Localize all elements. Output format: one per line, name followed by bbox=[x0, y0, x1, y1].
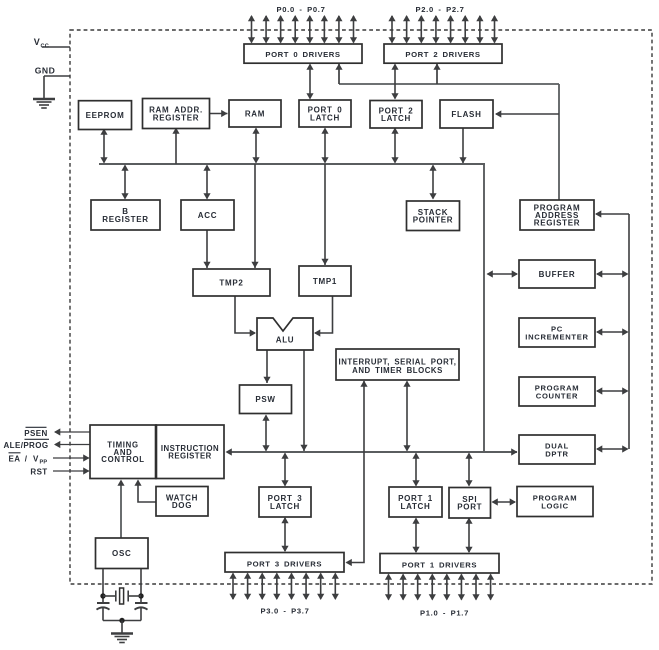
svg-text:LATCH: LATCH bbox=[381, 114, 411, 123]
svg-text:P2.0 - P2.7: P2.0 - P2.7 bbox=[415, 5, 464, 14]
svg-text:PORT 2 DRIVERS: PORT 2 DRIVERS bbox=[405, 50, 480, 59]
svg-text:CC: CC bbox=[41, 44, 49, 50]
svg-text:V: V bbox=[34, 37, 40, 47]
svg-text:LATCH: LATCH bbox=[400, 502, 430, 511]
svg-text:TMP2: TMP2 bbox=[219, 279, 243, 288]
svg-text:BUFFER: BUFFER bbox=[539, 270, 576, 279]
svg-text:P3.0 - P3.7: P3.0 - P3.7 bbox=[260, 607, 309, 616]
svg-text:AND TIMER BLOCKS: AND TIMER BLOCKS bbox=[352, 366, 443, 375]
svg-text:PORT 0 DRIVERS: PORT 0 DRIVERS bbox=[265, 50, 340, 59]
svg-text:PORT: PORT bbox=[457, 503, 482, 512]
svg-text:PP: PP bbox=[40, 460, 48, 466]
svg-text:FLASH: FLASH bbox=[451, 110, 481, 119]
svg-text:TMP1: TMP1 bbox=[313, 277, 337, 286]
svg-text:OSC: OSC bbox=[112, 549, 131, 558]
svg-text:REGISTER: REGISTER bbox=[153, 113, 200, 122]
svg-text:COUNTER: COUNTER bbox=[536, 391, 578, 400]
svg-text:DOG: DOG bbox=[172, 501, 192, 510]
svg-text:P0.0 - P0.7: P0.0 - P0.7 bbox=[276, 5, 325, 14]
svg-text:V: V bbox=[33, 455, 39, 464]
svg-text:EEPROM: EEPROM bbox=[86, 111, 125, 120]
svg-text:ALU: ALU bbox=[276, 336, 295, 345]
svg-text:PORT 3 DRIVERS: PORT 3 DRIVERS bbox=[247, 560, 322, 569]
svg-text:LOGIC: LOGIC bbox=[541, 501, 569, 510]
svg-text:INCREMENTER: INCREMENTER bbox=[525, 332, 588, 341]
svg-text:POINTER: POINTER bbox=[413, 216, 453, 225]
svg-text:LATCH: LATCH bbox=[310, 113, 340, 122]
svg-text:PSW: PSW bbox=[255, 395, 275, 404]
svg-text:PORT 1 DRIVERS: PORT 1 DRIVERS bbox=[402, 561, 477, 570]
svg-text:DPTR: DPTR bbox=[545, 449, 568, 458]
svg-text:GND: GND bbox=[35, 66, 56, 76]
svg-text:P1.0 - P1.7: P1.0 - P1.7 bbox=[420, 609, 469, 618]
svg-text:ALE/PROG: ALE/PROG bbox=[4, 441, 49, 450]
svg-text:REGISTER: REGISTER bbox=[102, 215, 149, 224]
svg-text:LATCH: LATCH bbox=[270, 502, 300, 511]
svg-text:REGISTER: REGISTER bbox=[168, 452, 211, 461]
svg-text:REGISTER: REGISTER bbox=[534, 218, 581, 227]
svg-text:RST: RST bbox=[30, 468, 47, 477]
svg-text:PSEN: PSEN bbox=[24, 429, 47, 438]
svg-text:ACC: ACC bbox=[198, 211, 217, 220]
svg-text:CONTROL: CONTROL bbox=[101, 455, 144, 464]
svg-text:EA: EA bbox=[9, 455, 21, 464]
svg-text:RAM: RAM bbox=[245, 110, 265, 119]
